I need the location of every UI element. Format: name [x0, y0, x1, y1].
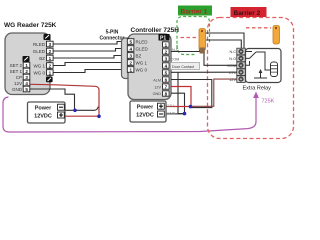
barrier 1 dashed loop — [177, 17, 210, 50]
reader pin WG0 — [33, 70, 53, 76]
wire relay 12V maroon — [191, 79, 237, 106]
wire lock1 top to NC — [206, 33, 245, 52]
svg-text:12VDC: 12VDC — [136, 113, 154, 119]
reader pin SET1 — [10, 68, 30, 74]
svg-text:WG 1: WG 1 — [136, 61, 148, 66]
power1 minus terminal — [58, 104, 65, 110]
wire CTL branch down — [178, 72, 184, 113]
power supply 2 — [130, 101, 166, 122]
junction dot GND — [183, 112, 187, 116]
wire WG0 — [53, 70, 128, 73]
svg-text:SET 1: SET 1 — [10, 69, 23, 74]
controller pin 1 WG0 — [127, 67, 147, 73]
wire power1 - with hook — [64, 107, 98, 111]
reader pin GLED — [33, 48, 53, 54]
wire magenta 725K loop — [3, 97, 256, 132]
controller pin 4 GLED — [127, 46, 148, 52]
svg-text:BZ: BZ — [136, 54, 142, 59]
svg-text:Connector: Connector — [100, 36, 125, 42]
wire BZ — [53, 56, 128, 59]
wire reader 12V red — [30, 84, 99, 116]
wire ALM — [171, 80, 212, 108]
controller pin 2 WG1 — [127, 60, 147, 66]
svg-text:CTL: CTL — [229, 71, 236, 75]
barrier 2 stub — [181, 37, 198, 39]
svg-text:BZ: BZ — [39, 56, 45, 61]
power2 minus terminal — [158, 111, 165, 117]
reader pin SET2 — [10, 62, 30, 68]
svg-text:COM: COM — [171, 58, 180, 62]
reader pin BZ — [39, 55, 53, 61]
controller pin 5 RLED — [127, 39, 148, 45]
svg-text:ALM: ALM — [153, 78, 161, 82]
relay coil — [271, 62, 278, 77]
svg-text:WG 1: WG 1 — [33, 64, 45, 69]
relay switch symbol — [246, 52, 257, 66]
junction dot 12V — [189, 105, 193, 109]
svg-text:RLED: RLED — [136, 40, 149, 45]
svg-text:Extra Relay: Extra Relay — [243, 85, 272, 91]
barrier 2 stub to lock2 — [246, 27, 271, 29]
svg-text:GLED: GLED — [136, 47, 149, 52]
wire GLED — [53, 49, 128, 52]
svg-text:GND: GND — [12, 87, 23, 92]
svg-text:Controller 725H: Controller 725H — [131, 27, 180, 34]
lock 2 — [273, 26, 280, 45]
wire power1 + — [64, 115, 99, 117]
label Barrier 1 — [178, 6, 212, 16]
wire reader GND — [30, 89, 75, 110]
svg-text:12V: 12V — [154, 85, 161, 89]
reader pin 12V — [14, 80, 30, 86]
reader pin WG1 — [33, 63, 53, 69]
svg-text:GND: GND — [167, 112, 176, 116]
relay arrow — [260, 71, 262, 78]
svg-text:WG 0: WG 0 — [33, 71, 45, 76]
svg-text:CP: CP — [16, 75, 22, 80]
reader pin icon top-right — [44, 34, 51, 40]
svg-text:N.C: N.C — [230, 50, 237, 54]
svg-text:12V: 12V — [14, 81, 22, 86]
reader 725K body — [5, 33, 50, 95]
svg-text:Barrier 1: Barrier 1 — [181, 9, 208, 16]
svg-text:RLED: RLED — [33, 42, 46, 47]
relay wire path — [256, 52, 271, 70]
svg-text:SET 2: SET 2 — [10, 63, 23, 68]
power1 plus terminal — [58, 112, 65, 118]
svg-text:GND: GND — [153, 92, 162, 96]
svg-text:5-PIN: 5-PIN — [106, 30, 119, 36]
svg-text:12VDC: 12VDC — [34, 114, 52, 120]
wire pin2 to lock1 — [171, 50, 200, 52]
svg-text:GLED: GLED — [33, 49, 46, 54]
reader pin GND — [12, 86, 30, 92]
power2 plus terminal — [158, 103, 165, 109]
svg-text:N.O: N.O — [229, 57, 236, 61]
reader pin CP — [16, 74, 30, 80]
svg-text:725K: 725K — [262, 99, 275, 105]
power supply 1 — [28, 102, 66, 123]
svg-text:12V: 12V — [167, 104, 174, 108]
junction dot blue GND — [73, 109, 77, 113]
svg-text:WG 0: WG 0 — [136, 68, 148, 73]
reader pin RLED — [33, 41, 53, 47]
label Barrier 2 — [231, 7, 267, 17]
svg-text:Power: Power — [35, 106, 52, 112]
wire lock1 to NO — [206, 40, 241, 58]
controller P1 tag — [159, 34, 170, 41]
wire GND controller — [171, 93, 185, 113]
wire CTL — [171, 71, 237, 73]
svg-text:WG Reader 725K: WG Reader 725K — [4, 22, 57, 29]
reader pin icon right-bottom — [46, 77, 53, 83]
svg-text:Door Contact: Door Contact — [172, 65, 195, 69]
arrowhead 725K — [253, 92, 259, 99]
wire 12V red controller — [171, 87, 191, 107]
svg-text:N-C: N-C — [172, 48, 179, 52]
controller 725H body — [128, 34, 171, 100]
label Door Contact — [171, 63, 200, 70]
relay terminals — [237, 48, 246, 82]
junction dot blue 12V — [97, 115, 101, 119]
barrier 2 dashed loop — [208, 18, 294, 139]
svg-text:12V: 12V — [229, 78, 236, 82]
wire RLED — [53, 42, 128, 45]
svg-text:Power: Power — [137, 105, 154, 111]
wire WG1 — [53, 63, 128, 66]
reader left header icon — [23, 56, 30, 62]
svg-text:Barrier 2: Barrier 2 — [234, 10, 261, 17]
connector 5-pin body — [122, 38, 134, 79]
svg-text:COM: COM — [227, 64, 236, 68]
lock 1 — [199, 29, 206, 51]
svg-text:P1: P1 — [160, 36, 166, 42]
relay U1 body — [246, 49, 282, 83]
wire power2 + — [164, 106, 191, 108]
wire power2 - — [164, 113, 185, 115]
controller pin 3 BZ — [127, 53, 141, 59]
controller right pins 1-8 — [163, 42, 170, 97]
wire lock1 bottom to COM — [204, 53, 237, 66]
